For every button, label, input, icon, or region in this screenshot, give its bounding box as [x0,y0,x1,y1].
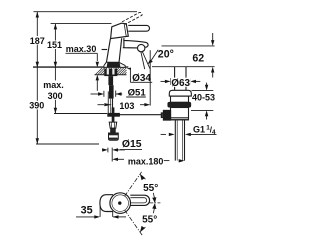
svg-text:Ø51: Ø51 [128,87,147,98]
svg-text:max.: max. [43,80,64,90]
svg-text:55°: 55° [142,214,157,225]
svg-text:151: 151 [47,40,62,50]
arrow 62 bottom [211,67,214,73]
svg-text:390: 390 [29,100,44,110]
centerline horizontal [149,202,161,204]
arrow 103 right [144,103,150,106]
arrow 20deg leader [148,59,153,64]
hose end line [54,113,107,115]
linkage clamp dark [163,110,170,120]
shank dark [104,69,117,77]
arrow 40-53 bottom [205,110,208,116]
handle cap circle [110,193,131,214]
dim 62 arrows stems [212,33,214,41]
label 187 [30,36,46,45]
svg-text:Ø63: Ø63 [171,78,190,89]
arc arrow mid-top [152,197,156,203]
aerator ball [138,44,145,51]
label 151 [47,41,64,50]
body right edge [119,38,122,67]
waste nut dark [168,102,191,107]
svg-text:300: 300 [48,91,63,101]
arrow O63 left [165,80,171,83]
arrowheads [36,12,215,219]
svg-text:Ø34: Ø34 [132,73,151,84]
rod end line (390 bottom) [36,143,99,145]
body left edge [106,39,111,68]
counter top line [33,66,128,68]
basin rim level line [152,66,215,68]
arrow O34 [127,68,131,70]
arrow O15 left [102,148,108,151]
arrow O51 left [98,92,104,95]
svg-text:40-53: 40-53 [192,92,215,102]
svg-text:103: 103 [119,101,134,111]
svg-text:Ø15: Ø15 [122,139,142,150]
dimension line 151/max300 vertical [54,24,56,68]
arrow max30 top [96,62,99,68]
counter hatch [96,68,127,75]
centerline 55 down [125,210,143,236]
arrow 62 top [211,40,214,46]
threaded stud dark [108,76,113,85]
tailpipe [174,120,176,161]
20deg leader line [150,50,158,62]
lever cap [111,23,129,38]
arc arrow down [140,226,145,232]
arrow G114 left [169,133,175,136]
lever bar inner [130,198,146,203]
arrow 151 top [54,24,57,30]
svg-text:20°: 20° [158,48,174,60]
arrow max30 bottom [96,75,99,81]
arrow max300 bottom [54,108,57,114]
dim 40-53 extension lines [192,90,214,92]
spray angle right line [142,52,150,69]
rod tee clamp [112,107,115,122]
spout tip extension vertical [149,50,151,105]
arrow O63 right [190,80,196,83]
max.30 leader [66,52,98,54]
supply hoses [108,91,163,114]
arrow G114 right [185,133,191,136]
handle detail view [100,193,150,214]
dim 35 row [76,216,96,218]
arrow O15 right [112,148,118,151]
faucet group [102,12,159,69]
svg-text:55°: 55° [143,183,158,194]
dim O51 line [91,93,100,95]
dim G1 1/4 leader [161,133,166,135]
arc arrow mid-bottom [152,203,156,209]
arc lower seg b [140,227,146,232]
spout underside [123,47,138,49]
arrow O51 right [116,92,122,95]
svg-text:max.180: max.180 [128,156,164,166]
svg-text:187: 187 [30,36,45,46]
arrow 35 left [94,215,100,218]
label O63 [171,78,191,87]
arrow 187 bottom [36,62,39,68]
svg-text:max.30: max.30 [66,44,97,54]
aerator level line [162,45,215,47]
label max.300 [42,80,66,99]
label 390 [29,101,47,110]
pull knob [109,122,119,140]
arrow 35 right [113,215,119,218]
arc upper seg b [153,193,155,203]
dim O15 row [103,149,104,151]
arrow max180 right [179,159,185,162]
arc upper seg a [140,174,146,179]
spray angle left line [141,52,145,69]
handle base capsule [100,195,113,212]
centerline 55 up [125,172,142,196]
arc lower seg a [153,204,155,214]
waste top tube [174,67,176,91]
arrow 187 top [36,12,39,18]
waste upper body [171,96,189,102]
lever rod horizontal [128,25,149,31]
lever bar outer [130,195,150,205]
arc arrow up [140,175,145,181]
handle center dot [118,201,121,204]
svg-text:62: 62 [192,52,204,64]
counter bottom line [95,74,127,76]
arrow 151 bottom [54,62,57,68]
dim max180 row [117,158,124,160]
spout top [123,40,148,47]
waste flange [169,90,191,96]
linkage horizontal rod [114,114,164,116]
lever dashed raised [122,12,142,24]
hose collar dark [109,85,114,99]
dim 103 line [98,104,105,106]
waste lower body [171,108,189,120]
extension line top (overall height ref) [34,11,138,13]
arrow max180 left [112,158,118,161]
dimension line 187/390 vertical [36,12,38,68]
extension line spout top ref [51,23,112,25]
side tick [102,49,108,51]
dim O63 line [161,80,167,82]
waste assembly [161,67,191,161]
dim O34 underline and pointer [130,81,152,83]
pop-up rod vertical [112,99,114,108]
svg-text:35: 35 [81,205,93,217]
arrow 103 left [104,103,112,106]
arrow 40-53 top [205,85,208,91]
arrow 390 bottom [36,138,39,144]
base escutcheon dark band [104,62,126,67]
